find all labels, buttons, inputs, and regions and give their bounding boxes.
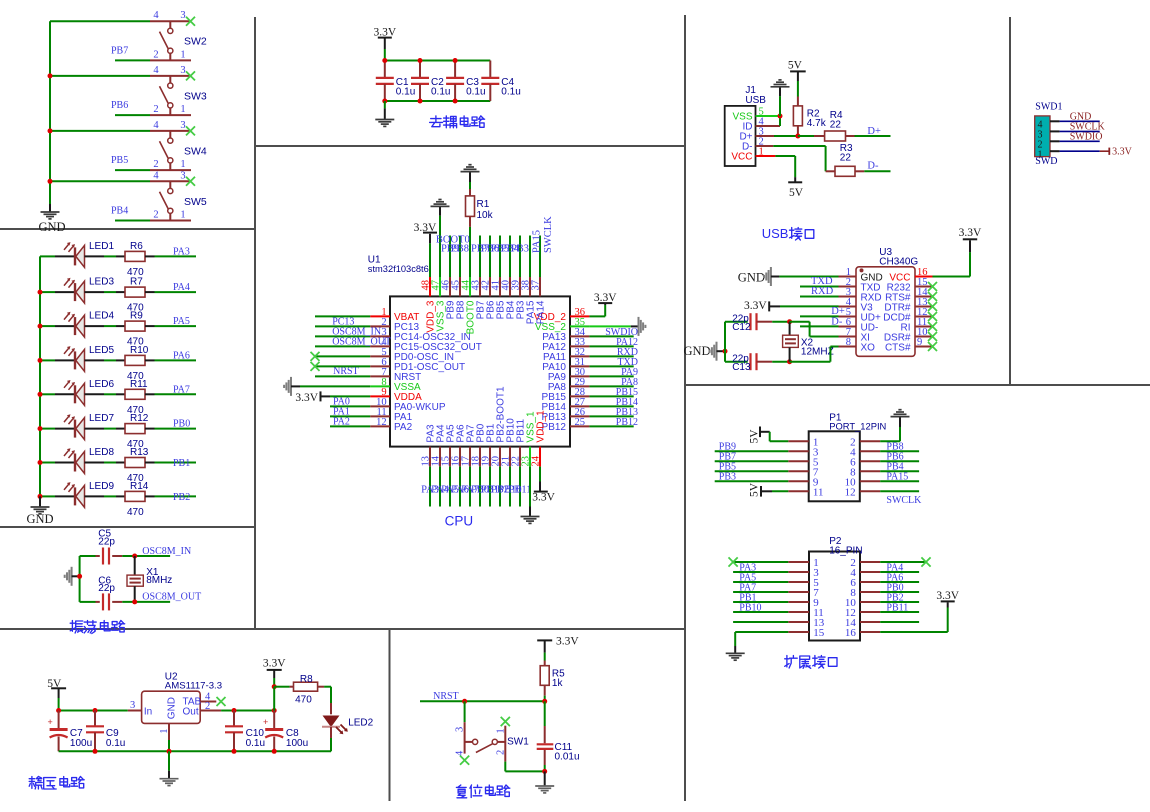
wire GND [1060, 120, 1100, 122]
wire PA7 [155, 393, 197, 395]
wire PB5 [115, 169, 150, 171]
svg-text:PB1: PB1 [173, 458, 190, 469]
svg-text:4.7k: 4.7k [807, 118, 827, 129]
svg-text:22p: 22p [732, 313, 749, 324]
svg-text:0.1u: 0.1u [431, 87, 450, 98]
wire bottom rail [385, 100, 491, 102]
junction [272, 708, 277, 713]
junction [787, 319, 792, 324]
no-connect pin 3 SW4 [186, 126, 195, 135]
pin 2 P1 [860, 440, 880, 442]
section border frame [254, 17, 256, 629]
pin 7 NRST [370, 375, 390, 377]
svg-text:SW1: SW1 [507, 736, 529, 747]
pin 19 PB1 [489, 447, 491, 467]
svg-text:470: 470 [127, 507, 144, 518]
pin 17 PA7 [469, 447, 471, 467]
pin 38 PA15 [529, 277, 531, 296]
no-connect pin 3 SW5 [186, 177, 195, 186]
wire PB7 [715, 460, 789, 462]
svg-text:3: 3 [455, 727, 466, 732]
IC U2 AMS1117-3.3 [142, 691, 201, 723]
ground VSS_1 [529, 467, 531, 507]
svg-text:SWDIO: SWDIO [1070, 131, 1103, 142]
svg-text:3: 3 [130, 700, 135, 711]
svg-text:USB: USB [745, 95, 766, 106]
wire rail to LED4 [40, 325, 55, 327]
crystal X2 12MHZ [789, 322, 791, 336]
ground pin15 [735, 631, 788, 633]
svg-text:SWD: SWD [1035, 156, 1057, 167]
pin 24 VDD_1 [539, 447, 541, 467]
no-connect pin 6 [315, 365, 370, 367]
resistor R11 [116, 393, 125, 395]
wire PB2 [880, 601, 919, 603]
wire to SW2 pin 4 [50, 20, 150, 22]
pin 15 P2 [788, 631, 809, 633]
svg-text:16: 16 [845, 627, 857, 639]
pin 6 P2 [860, 581, 880, 583]
pin 5 PD0-OSC_IN [370, 355, 390, 357]
junction [232, 749, 237, 754]
svg-text:2: 2 [153, 159, 158, 170]
svg-text:3: 3 [180, 120, 185, 131]
pin 42 PB6 [489, 277, 491, 296]
pin 3 RXD [839, 296, 857, 298]
svg-text:15: 15 [813, 627, 825, 639]
wire rail to LED9 [40, 495, 55, 497]
svg-text:+: + [263, 717, 268, 727]
pin 39 PB3 [519, 277, 521, 296]
wire PB6 [115, 114, 150, 116]
no-connect pin 3 SW3 [186, 71, 195, 80]
svg-text:470: 470 [295, 694, 312, 705]
capacitor C11 0.01u [544, 701, 546, 726]
svg-text:R11: R11 [130, 379, 148, 390]
wire to SW4 pin 4 [50, 130, 150, 132]
pin 7 P1 [788, 470, 808, 472]
resistor R4 22 [814, 135, 825, 137]
wire NRST [420, 700, 545, 702]
wire PB14 [589, 405, 633, 407]
svg-text:D+: D+ [867, 126, 881, 137]
wire TXD [589, 365, 633, 367]
svg-text:2: 2 [153, 49, 158, 60]
capacitor C2 [419, 61, 421, 78]
svg-text:3.3V: 3.3V [532, 492, 555, 504]
svg-text:PA15: PA15 [532, 230, 543, 253]
svg-text:PB4: PB4 [111, 206, 128, 217]
wire PA9 [589, 375, 633, 377]
svg-text:100u: 100u [70, 738, 92, 749]
pin 6 UD- [839, 326, 857, 328]
ground [384, 101, 386, 108]
svg-text:12: 12 [845, 486, 856, 498]
svg-text:3.3V: 3.3V [556, 635, 579, 647]
svg-text:R7: R7 [130, 277, 143, 288]
pin 25 PB12 [570, 425, 589, 427]
wire SWCLK [880, 490, 919, 492]
svg-text:22: 22 [830, 120, 842, 131]
wire [85, 291, 105, 293]
wire PB9 [715, 450, 789, 452]
wire [499, 467, 501, 507]
svg-text:OSC8M_OUT: OSC8M_OUT [332, 336, 391, 347]
junction [418, 58, 423, 63]
svg-text:PB3: PB3 [719, 472, 736, 483]
svg-text:GND: GND [684, 344, 711, 358]
svg-text:4: 4 [153, 170, 159, 181]
svg-text:3.3V: 3.3V [594, 292, 617, 304]
svg-text:0.1u: 0.1u [396, 87, 415, 98]
junction [382, 99, 387, 104]
no-connect pin 9 [928, 342, 937, 351]
wire PB5 [715, 470, 789, 472]
wire [85, 462, 105, 464]
wire [439, 467, 441, 507]
wire oscillator left rail [79, 556, 81, 602]
svg-text:1: 1 [495, 728, 506, 733]
svg-text:CPU: CPU [445, 513, 474, 528]
no-connect pin2 P2 [880, 561, 926, 563]
no-connect TAB [217, 697, 226, 706]
svg-text:PA6: PA6 [173, 350, 190, 361]
led LED8 [55, 462, 75, 464]
resistor R1 [469, 227, 471, 277]
svg-text:LED1: LED1 [89, 241, 114, 252]
wire PA7 [733, 591, 788, 593]
wire [85, 428, 105, 430]
junction [272, 749, 277, 754]
switch SW4 [150, 130, 191, 132]
svg-text:GND: GND [166, 697, 177, 719]
svg-text:SWCLK: SWCLK [543, 216, 554, 253]
svg-text:PA15: PA15 [886, 472, 908, 483]
pin 8 XO [839, 346, 857, 348]
pin line VSS [756, 115, 781, 117]
wire PB0 [880, 591, 919, 593]
junction [48, 73, 53, 78]
wire output [221, 710, 274, 712]
svg-text:0.1u: 0.1u [501, 87, 520, 98]
svg-text:3.3V: 3.3V [936, 590, 959, 602]
svg-text:24: 24 [531, 455, 542, 466]
svg-text:R14: R14 [130, 481, 149, 492]
pin 22 PB11 [519, 447, 521, 467]
wire [273, 687, 275, 711]
wire RXD [589, 355, 633, 357]
led LED5 [55, 359, 75, 361]
wire 3.3V [1060, 150, 1100, 152]
wire [519, 467, 521, 507]
junction [382, 58, 387, 63]
wire [85, 255, 105, 257]
no-connect pin 14 [928, 292, 937, 301]
svg-text:LED8: LED8 [89, 447, 114, 458]
power port 5V pin1 [759, 427, 761, 438]
svg-text:PB12: PB12 [616, 417, 638, 428]
wire PB13 [589, 415, 633, 417]
svg-text:GND: GND [738, 271, 765, 285]
junction [48, 179, 53, 184]
wire [459, 236, 461, 278]
junction [453, 99, 458, 104]
svg-text:4: 4 [153, 120, 159, 131]
pin 31 PA10 [570, 365, 589, 367]
svg-text:3.3V: 3.3V [263, 658, 286, 670]
svg-text:LED7: LED7 [89, 413, 114, 424]
svg-text:2: 2 [153, 210, 158, 221]
svg-text:R9: R9 [130, 311, 143, 322]
svg-text:PA7: PA7 [173, 384, 190, 395]
led LED3 [55, 291, 75, 293]
wire [85, 359, 105, 361]
pin 13 DTR# [915, 306, 933, 308]
junction [542, 769, 547, 774]
pin 20 PB2-BOOT1 [499, 447, 501, 467]
wire PA1 [330, 415, 370, 417]
wire PA5 [155, 325, 197, 327]
power port 3.3V VCC U3 [933, 276, 971, 278]
no-connect pin 4 SW1 [460, 756, 469, 765]
pin 12 PA2 [370, 425, 390, 427]
ground [39, 496, 41, 506]
wire OSC8M_IN [122, 555, 170, 557]
pin 9 CTS# [915, 346, 933, 348]
junction [38, 290, 43, 295]
svg-text:D-: D- [831, 316, 843, 327]
wire input rail [59, 710, 128, 712]
wire PB2 [155, 495, 197, 497]
wire PA3 [155, 255, 197, 257]
svg-text:GND: GND [26, 512, 53, 526]
resistor R13 [116, 462, 125, 464]
junction [48, 128, 53, 133]
wire [489, 236, 491, 278]
pin 2 P2 [860, 561, 880, 563]
pin 1 P2 [788, 561, 809, 563]
wire PB11 [880, 611, 919, 613]
pin 15 R232 [915, 286, 933, 288]
pin 43 PB7 [479, 277, 481, 296]
power port 3.3V [537, 639, 552, 641]
wire rail to LED5 [40, 359, 55, 361]
wire [469, 467, 471, 507]
capacitor C7 100u polarized [58, 711, 60, 729]
svg-text:22p: 22p [98, 537, 115, 548]
wire PA3 [733, 571, 788, 573]
wire PB8 [880, 450, 919, 452]
resistor R12 [116, 428, 125, 430]
pin 21 PB10 [509, 447, 511, 467]
resistor R10 [116, 359, 125, 361]
pin 2 TXD [839, 286, 857, 288]
svg-text:1: 1 [159, 728, 170, 733]
svg-text:1: 1 [180, 159, 185, 170]
ground GND arrow [71, 567, 73, 586]
pin 1 GND [168, 723, 170, 740]
capacitor C8 100u polarized [273, 711, 275, 729]
wire [449, 467, 451, 507]
wire ground rail [59, 750, 331, 752]
svg-text:PB7: PB7 [111, 45, 128, 56]
pin 14 RTS# [915, 296, 933, 298]
pin 4 P1 [860, 450, 880, 452]
pin 16 VCC [915, 276, 933, 278]
pin 1 P1 [788, 440, 808, 442]
junction [453, 58, 458, 63]
wire PB12 [589, 425, 633, 427]
svg-text:NRST: NRST [333, 366, 359, 377]
pin 13 PA3 [429, 447, 431, 467]
svg-text:R10: R10 [130, 345, 149, 356]
title expansion interface [785, 656, 837, 669]
svg-text:1: 1 [180, 210, 185, 221]
svg-text:22p: 22p [732, 353, 749, 364]
pin 10 DSR# [915, 336, 933, 338]
svg-text:0.1u: 0.1u [106, 738, 125, 749]
pin 36 VDD_2 [570, 315, 589, 317]
wire PB3 [715, 480, 789, 482]
no-connect pin 3 SW2 [186, 17, 195, 26]
pin 45 PB8 [459, 277, 461, 296]
wire [539, 236, 541, 278]
junction [38, 460, 43, 465]
wire RXD [800, 296, 839, 298]
svg-text:12MHZ: 12MHZ [801, 346, 834, 357]
wire PB15 [589, 395, 633, 397]
pin 35 VSS_2 [570, 325, 589, 327]
wire PA6 [880, 581, 919, 583]
pin 7 XI [839, 336, 857, 338]
capacitor C4 [489, 61, 491, 78]
capacitor C6 [80, 601, 96, 603]
svg-text:3: 3 [180, 65, 185, 76]
svg-text:100u: 100u [286, 738, 308, 749]
svg-text:PA5: PA5 [173, 316, 190, 327]
svg-text:5V: 5V [788, 59, 803, 71]
junction [132, 599, 137, 604]
pin 11 P1 [788, 490, 808, 492]
wire PA5 [733, 581, 788, 583]
pin 11 P2 [788, 611, 809, 613]
capacitor C10 0.1u [233, 711, 235, 727]
junction [462, 699, 467, 704]
capacitor C3 [454, 61, 456, 78]
svg-text:0.1u: 0.1u [246, 738, 265, 749]
no-connect pin 1 SW1 [501, 717, 510, 726]
pin line D- [756, 145, 774, 147]
wire SWDIO [1060, 140, 1100, 142]
ground [168, 751, 170, 770]
led LED6 [55, 393, 75, 395]
pin 41 PB5 [499, 277, 501, 296]
svg-text:10k: 10k [477, 210, 494, 221]
pin 9 P2 [788, 601, 809, 603]
pin 29 PA8 [570, 385, 589, 387]
ground VSS_2 [589, 325, 630, 327]
led LED9 [55, 495, 75, 497]
svg-text:PA4: PA4 [173, 282, 190, 293]
svg-text:CH340G: CH340G [879, 256, 918, 267]
wire [85, 495, 105, 497]
junction [167, 749, 172, 754]
pin 6 P1 [860, 460, 880, 462]
wire XI [790, 321, 810, 323]
svg-text:NRST: NRST [433, 691, 459, 702]
svg-text:VCC: VCC [731, 152, 752, 163]
pin 37 PA14 [539, 277, 541, 296]
pin 8 VSSA [370, 385, 390, 387]
wire PB10 [733, 611, 788, 613]
svg-text:22: 22 [840, 153, 852, 164]
pin 4 V3 [839, 306, 857, 308]
svg-text:11: 11 [813, 486, 824, 498]
no-connect pin 11 [928, 322, 937, 331]
svg-text:SW5: SW5 [184, 196, 207, 208]
wire PB0 [155, 428, 197, 430]
svg-text:PA14: PA14 [536, 300, 547, 324]
pin 7 P2 [788, 591, 809, 593]
svg-text:1: 1 [180, 49, 185, 60]
wire [724, 351, 726, 362]
ground [49, 204, 51, 212]
wire D- [773, 145, 825, 147]
wire [459, 467, 461, 507]
resistor R5 1k [544, 661, 546, 666]
pin 16 P2 [860, 631, 880, 633]
svg-text:3: 3 [180, 10, 185, 21]
wire [330, 727, 332, 738]
connector J1 USB [725, 106, 756, 166]
wire OSC8M_OUT [122, 601, 170, 603]
svg-text:3.3V: 3.3V [744, 300, 767, 312]
svg-text:OSC8M_IN: OSC8M_IN [142, 546, 191, 557]
svg-text:37: 37 [531, 280, 542, 291]
wire PA8 [589, 385, 633, 387]
svg-text:2: 2 [205, 701, 210, 712]
power port 3.3V [1108, 148, 1110, 155]
wire PA0 [330, 405, 370, 407]
junction [272, 684, 277, 689]
wire [315, 325, 370, 327]
wire to SW3 pin 4 [50, 75, 150, 77]
svg-text:R6: R6 [130, 241, 143, 252]
pin 10 P2 [860, 601, 880, 603]
wire rail to LED8 [40, 462, 55, 464]
svg-text:16_PIN: 16_PIN [829, 546, 862, 557]
pin 3 PC14-OSC32_IN [370, 335, 390, 337]
wire rail to LED1 [40, 255, 55, 257]
svg-text:Out: Out [183, 706, 199, 717]
pin 8 P2 [860, 591, 880, 593]
pin 12 P2 [860, 611, 880, 613]
svg-text:8: 8 [846, 337, 851, 348]
junction [723, 349, 728, 354]
IC U1 stm32f103c8t6 [390, 296, 570, 446]
svg-text:SW4: SW4 [184, 145, 207, 157]
wire [429, 467, 431, 507]
resistor R8 470 [274, 686, 289, 688]
wire pin13 [733, 621, 788, 623]
svg-text:1: 1 [180, 104, 185, 115]
pin 26 PB13 [570, 415, 589, 417]
pin 33 PA12 [570, 345, 589, 347]
svg-text:2: 2 [153, 104, 158, 115]
svg-text:GND: GND [38, 220, 65, 234]
resistor R14 [116, 495, 125, 497]
svg-text:22p: 22p [98, 583, 115, 594]
